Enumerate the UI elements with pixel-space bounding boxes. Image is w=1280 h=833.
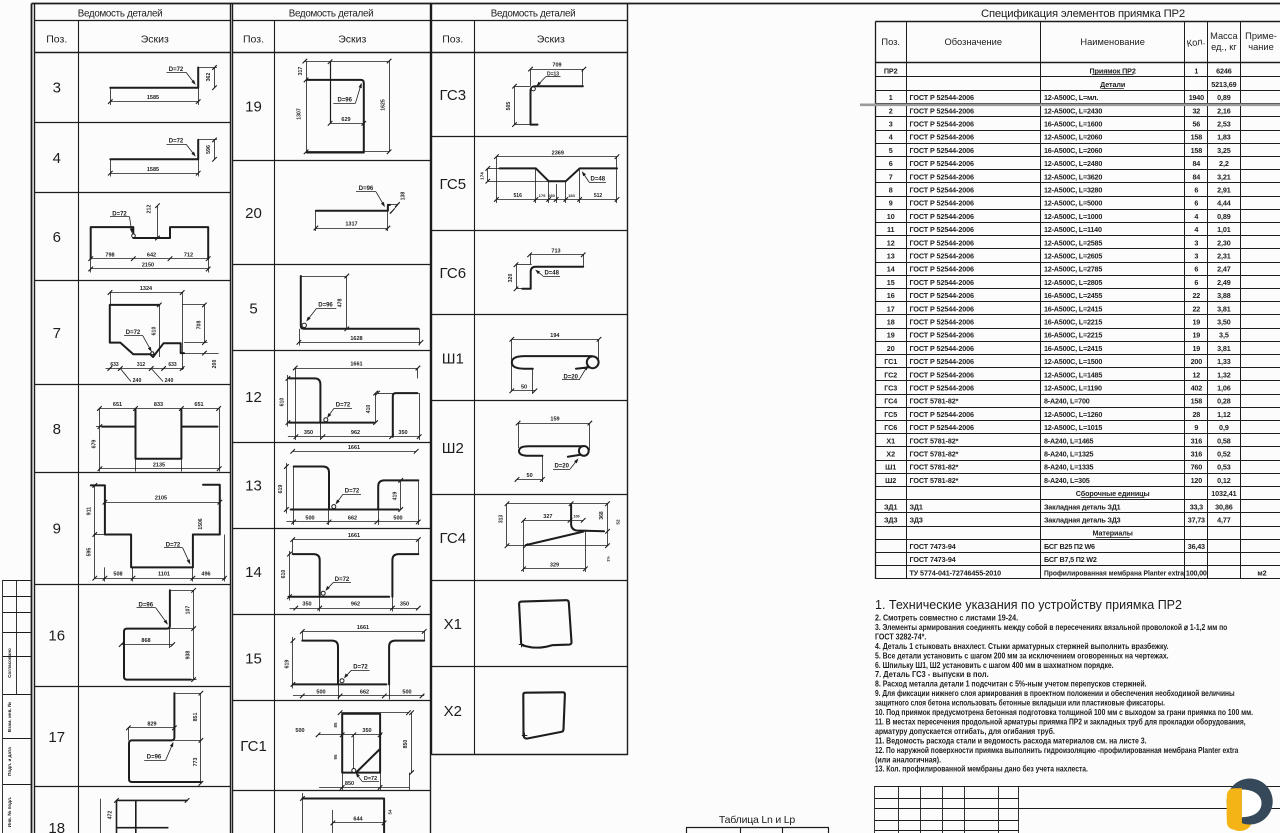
svg-text:19: 19 [1192,318,1200,327]
svg-text:512: 512 [594,193,603,199]
sketch detail 14: U bar [281,533,420,611]
svg-text:95: 95 [333,754,338,759]
svg-text:194: 194 [550,333,560,339]
svg-text:500: 500 [305,516,314,522]
svg-text:320: 320 [508,274,514,283]
svg-text:0,58: 0,58 [1217,436,1231,445]
svg-text:Закладная деталь ЗД3: Закладная деталь ЗД3 [1044,516,1121,525]
svg-text:0,52: 0,52 [1217,450,1231,459]
svg-text:1940: 1940 [1189,93,1204,102]
svg-text:107: 107 [186,606,192,615]
svg-text:ЗД1: ЗД1 [910,502,923,511]
svg-text:ЗД3: ЗД3 [884,516,897,525]
svg-text:708: 708 [196,321,202,330]
sketch detail 16: Z bar with rounded corner [119,588,197,682]
svg-text:2135: 2135 [153,462,165,468]
svg-text:080: 080 [548,193,555,198]
svg-text:84: 84 [1192,159,1200,168]
svg-text:798: 798 [105,252,114,258]
svg-text:851: 851 [193,713,199,722]
details table 3 position labels [439,87,466,720]
svg-text:3,25: 3,25 [1217,146,1231,155]
spec table headers [881,31,1276,52]
svg-text:8-А240, L=1335: 8-А240, L=1335 [1044,463,1094,472]
svg-text:2105: 2105 [155,496,167,502]
svg-text:Ш1: Ш1 [442,351,464,368]
details table 1 header Поз/Эскиз [46,34,169,46]
left margin label Подп. и дата [7,747,12,776]
svg-text:Эскиз: Эскиз [141,34,169,46]
svg-text:1101: 1101 [158,572,170,578]
svg-text:Детали: Детали [1100,80,1125,89]
spec row ГС1 [884,357,1231,366]
svg-text:350: 350 [362,728,371,734]
svg-text:3,81: 3,81 [1217,344,1231,353]
svg-text:179: 179 [539,193,546,198]
svg-text:ГОСТ Р 52544-2006: ГОСТ Р 52544-2006 [910,199,975,208]
svg-text:1324: 1324 [140,286,153,292]
svg-text:12-А500С, L=1260: 12-А500С, L=1260 [1044,410,1102,419]
svg-text:240: 240 [165,378,174,384]
svg-text:Масса: Масса [1210,31,1238,41]
sketch detail ГС6: angle bar with foot [508,248,586,291]
svg-text:ГОСТ Р 52544-2006: ГОСТ Р 52544-2006 [910,146,975,155]
svg-text:Поз.: Поз. [442,34,463,46]
svg-text:12-А500С, L=1000: 12-А500С, L=1000 [1044,212,1102,221]
svg-text:410: 410 [366,405,372,414]
svg-text:350: 350 [400,602,409,608]
svg-text:596: 596 [206,145,212,154]
spec row 20 [887,344,1231,353]
svg-text:1,12: 1,12 [1217,410,1231,419]
svg-text:644: 644 [353,817,363,823]
spec row ГС6 [884,423,1229,432]
svg-text:7: 7 [889,172,893,181]
svg-text:0,89: 0,89 [1217,93,1231,102]
svg-text:ГОСТ Р 52544-2006: ГОСТ Р 52544-2006 [910,212,975,221]
svg-text:ГОСТ Р 52544-2006: ГОСТ Р 52544-2006 [910,344,975,353]
svg-text:Приме-: Приме- [1245,31,1277,41]
spec row 11 [887,225,1231,234]
svg-text:1032,41: 1032,41 [1211,489,1236,498]
svg-text:ГС1: ГС1 [240,738,267,755]
spec row Ш1 [885,463,1231,472]
svg-text:12-А500С, L=2480: 12-А500С, L=2480 [1044,159,1102,168]
details table 2 header Поз/Эскиз [243,34,366,46]
svg-text:1628: 1628 [350,336,362,342]
svg-text:2,49: 2,49 [1217,278,1231,287]
svg-text:850: 850 [345,781,354,787]
svg-text:ТУ 5774-041-72746455-2010: ТУ 5774-041-72746455-2010 [910,568,1002,577]
svg-text:ГС3: ГС3 [884,384,897,393]
svg-text:619: 619 [278,485,284,494]
details table 3 border [432,4,628,756]
svg-text:15: 15 [245,651,262,668]
sketch detail 19: hooked vertical bar [297,59,392,154]
svg-text:2,30: 2,30 [1217,238,1231,247]
svg-text:19: 19 [1192,344,1200,353]
svg-text:ГОСТ Р 52544-2006: ГОСТ Р 52544-2006 [910,331,975,340]
svg-text:33,3: 33,3 [1190,502,1203,511]
svg-text:3. Элементы армирования соеди: 3. Элементы армирования соединять между … [875,622,1227,632]
svg-text:БСГ В7,5 П2 W2: БСГ В7,5 П2 W2 [1044,555,1097,564]
svg-text:ГС2: ГС2 [884,370,897,379]
logo: yellow base shape [1227,787,1253,831]
svg-text:212: 212 [147,205,153,214]
svg-text:ГС6: ГС6 [884,423,897,432]
svg-text:50: 50 [527,473,533,479]
svg-text:ЗД1: ЗД1 [884,502,897,511]
spec row Сборочные единицы [1076,489,1237,498]
svg-text:4: 4 [889,133,893,142]
svg-text:500: 500 [402,690,411,696]
svg-text:Поз.: Поз. [46,34,67,46]
svg-text:36,43: 36,43 [1188,542,1205,551]
svg-text:12-А500С, L=2605: 12-А500С, L=2605 [1044,252,1102,261]
spec row Детали [1100,80,1237,89]
details table 1 title Ведомость деталей [78,9,163,20]
sheet frame top border [32,3,1280,5]
spec table grid [875,22,1280,579]
svg-text:20: 20 [245,205,262,222]
spec row 8 [889,186,1231,195]
sketch detail 8: wide hat bar [92,402,222,472]
svg-text:662: 662 [348,516,357,522]
spec row 7 [889,172,1231,181]
svg-text:316: 316 [1191,436,1203,445]
svg-text:1%: 1% [605,556,610,562]
spec row ЗД1 [884,502,1233,511]
spec table title [981,8,1185,20]
svg-text:0,89: 0,89 [1217,212,1231,221]
svg-text:Сборочные единицы: Сборочные единицы [1076,489,1150,498]
spec row ЗД3 [884,516,1231,525]
svg-text:84: 84 [1192,172,1200,181]
svg-text:679: 679 [92,440,98,449]
svg-text:19: 19 [1192,331,1200,340]
svg-text:1661: 1661 [348,445,360,451]
svg-text:D=96: D=96 [337,98,352,104]
svg-text:500: 500 [295,728,304,734]
svg-text:8: 8 [889,186,893,195]
svg-text:2,53: 2,53 [1217,120,1231,129]
svg-text:ГС6: ГС6 [439,265,466,282]
svg-text:D=96: D=96 [318,303,333,309]
svg-text:ГС5: ГС5 [884,410,897,419]
svg-text:2,16: 2,16 [1217,106,1231,115]
svg-text:12-А500С, L=1485: 12-А500С, L=1485 [1044,370,1102,379]
svg-text:610: 610 [151,327,157,336]
svg-text:662: 662 [360,690,369,696]
bottom table title Таблица Ln и Lp [719,814,796,826]
svg-text:17: 17 [887,304,895,313]
spec row 14 [887,265,1231,274]
svg-text:2,47: 2,47 [1217,265,1231,274]
svg-text:ГОСТ Р 52544-2006: ГОСТ Р 52544-2006 [910,225,975,234]
svg-text:22: 22 [1192,291,1200,300]
svg-text:11: 11 [887,225,895,234]
svg-text:1,33: 1,33 [1217,357,1231,366]
svg-text:ГОСТ 5781-82*: ГОСТ 5781-82* [910,397,959,406]
sketch detail ГС1: square with diagonal [295,710,413,790]
svg-text:28: 28 [1192,410,1200,419]
svg-text:12-А500С, L=2430: 12-А500С, L=2430 [1044,106,1102,115]
svg-text:10: 10 [887,212,895,221]
sketch detail 17: Z bar mirrored [126,691,203,786]
svg-text:350: 350 [302,602,311,608]
svg-text:54: 54 [388,809,393,814]
spec row 6 [889,159,1229,168]
svg-text:БСГ В25 П2 W6: БСГ В25 П2 W6 [1044,542,1095,551]
svg-text:D=72: D=72 [345,489,360,495]
svg-text:3,88: 3,88 [1217,291,1231,300]
spec row Х2 [886,450,1230,459]
svg-text:Х1: Х1 [886,436,895,445]
svg-text:610: 610 [281,570,287,579]
svg-text:12-А500С, L=1015: 12-А500С, L=1015 [1044,423,1102,432]
svg-text:1,83: 1,83 [1217,133,1231,142]
svg-text:12-А500С, L=2805: 12-А500С, L=2805 [1044,278,1102,287]
spec row 19 [887,331,1229,340]
svg-text:17: 17 [48,729,65,746]
svg-text:496: 496 [201,572,210,578]
svg-text:619: 619 [285,660,291,669]
svg-text:16: 16 [48,628,65,645]
svg-text:ПР2: ПР2 [884,66,898,75]
sketch detail Х1: rounded quad ring [519,600,572,647]
svg-text:Ведомость деталей: Ведомость деталей [289,9,374,20]
svg-text:Спецификация элементов приямка: Спецификация элементов приямка ПР2 [981,8,1185,20]
svg-text:чание: чание [1248,42,1274,52]
svg-text:8-А240, L=1465: 8-А240, L=1465 [1044,436,1094,445]
svg-text:D=20: D=20 [554,464,569,470]
svg-text:760: 760 [1191,463,1203,472]
svg-text:ГС5: ГС5 [439,176,466,193]
sketch detail 15: U bar wide [285,625,427,700]
svg-text:Х1: Х1 [444,616,462,633]
details table 2 position labels [240,99,267,756]
svg-text:6: 6 [1194,265,1198,274]
svg-text:ГОСТ Р 52544-2006: ГОСТ Р 52544-2006 [910,278,975,287]
svg-text:3: 3 [1194,252,1198,261]
spec row 15 [887,278,1231,287]
svg-text:30,86: 30,86 [1215,502,1233,511]
svg-text:12-А500С, L=3620: 12-А500С, L=3620 [1044,172,1102,181]
svg-text:709: 709 [552,63,561,69]
spec row Профилированная мембрана Planter extra [910,568,1267,577]
svg-text:32: 32 [1192,106,1200,115]
sketch detail 4: bar with hook [108,138,217,177]
svg-text:ГОСТ Р 52544-2006: ГОСТ Р 52544-2006 [910,106,975,115]
svg-text:629: 629 [341,117,350,123]
sketch detail 3: bar with hook [108,65,217,105]
spec row 13 [887,252,1231,261]
svg-text:2369: 2369 [552,150,564,156]
svg-text:651: 651 [113,402,122,408]
spec row 2 [889,106,1231,115]
svg-text:1317: 1317 [345,222,357,228]
logo: white core [1242,790,1262,818]
sketch detail 13: U bar variant [278,445,421,525]
svg-text:16-А500С, L=2060: 16-А500С, L=2060 [1044,146,1102,155]
svg-text:Х2: Х2 [886,450,895,459]
svg-text:200: 200 [212,360,218,369]
svg-text:6: 6 [53,229,61,246]
svg-text:0,9: 0,9 [1219,423,1229,432]
svg-text:ГОСТ 7473-94: ГОСТ 7473-94 [910,555,956,564]
svg-text:8: 8 [53,421,61,438]
svg-text:329: 329 [550,562,559,568]
svg-text:D=72: D=72 [353,665,368,671]
svg-text:ГОСТ Р 52544-2006: ГОСТ Р 52544-2006 [910,304,975,313]
svg-text:20: 20 [887,344,895,353]
svg-text:Таблица Ln и Lp: Таблица Ln и Lp [719,814,796,826]
spec row 4 [889,133,1231,142]
svg-text:ГОСТ Р 52544-2006: ГОСТ Р 52544-2006 [910,291,975,300]
svg-text:12-А500С, L=мл.: 12-А500С, L=мл. [1044,93,1098,102]
svg-text:1,32: 1,32 [1217,370,1231,379]
svg-text:3: 3 [889,120,893,129]
svg-text:350: 350 [398,430,407,436]
svg-text:12-А500С, L=2785: 12-А500С, L=2785 [1044,265,1102,274]
svg-text:158: 158 [1191,133,1203,142]
title block grid [875,786,1280,833]
svg-text:1: 1 [1194,66,1198,75]
svg-text:D=96: D=96 [147,755,162,761]
sketch detail Ш1: long loop pin [510,333,602,394]
svg-text:850: 850 [403,740,409,749]
svg-text:ГОСТ Р 52544-2006: ГОСТ Р 52544-2006 [910,384,975,393]
svg-text:8-А240, L=700: 8-А240, L=700 [1044,397,1090,406]
svg-text:7: 7 [53,325,61,342]
svg-text:472: 472 [108,811,114,820]
svg-text:9: 9 [889,199,893,208]
svg-text:12-А500С, L=1140: 12-А500С, L=1140 [1044,225,1102,234]
svg-text:317: 317 [298,67,304,76]
spec row БСГ В7,5 П2 W2 [910,555,1097,564]
svg-text:2,91: 2,91 [1217,186,1231,195]
svg-text:ГОСТ 5781-82*: ГОСТ 5781-82* [910,436,959,445]
svg-text:868: 868 [141,638,150,644]
svg-text:Ш2: Ш2 [442,440,464,457]
svg-text:9: 9 [1194,423,1198,432]
svg-text:D=72: D=72 [169,67,184,73]
svg-text:Подп. и дата: Подп. и дата [7,747,12,776]
svg-text:13: 13 [245,478,262,495]
svg-text:362: 362 [206,73,212,82]
svg-text:19: 19 [245,99,262,116]
svg-text:16-А500С, L=2215: 16-А500С, L=2215 [1044,318,1102,327]
svg-text:D=72: D=72 [336,403,351,409]
svg-text:Эскиз: Эскиз [338,34,366,46]
svg-text:ГОСТ Р 52544-2006: ГОСТ Р 52544-2006 [910,172,975,181]
svg-text:100,00: 100,00 [1186,568,1207,577]
svg-text:2,2: 2,2 [1219,159,1229,168]
svg-text:633: 633 [168,362,177,368]
svg-text:D=72: D=72 [364,776,377,782]
svg-text:1585: 1585 [147,95,159,101]
svg-text:610: 610 [280,398,286,407]
svg-text:316: 316 [1191,450,1203,459]
svg-text:3,81: 3,81 [1217,304,1231,313]
sketch detail 12: stepped bar [280,362,422,440]
svg-text:911: 911 [87,507,93,515]
svg-text:500: 500 [393,516,402,522]
svg-text:12-А500С, L=1190: 12-А500С, L=1190 [1044,384,1102,393]
svg-text:Обозначение: Обозначение [945,37,1003,47]
svg-text:6: 6 [1194,278,1198,287]
spec row 17 [887,304,1231,313]
details table 3 title Ведомость деталей [491,9,576,20]
logo: navy ring disc [1227,779,1273,825]
svg-text:240: 240 [133,378,142,384]
svg-text:2: 2 [889,106,893,115]
spec row 10 [887,212,1231,221]
svg-text:0,53: 0,53 [1217,463,1231,472]
svg-text:773: 773 [193,758,199,767]
svg-text:ГОСТ Р 52544-2006: ГОСТ Р 52544-2006 [910,120,975,129]
sketch detail ГС4: bent flat bar [498,501,620,572]
sketch detail 20: straight bar with small hook [314,186,407,231]
svg-text:829: 829 [147,721,156,727]
svg-text:Взам. инв. №: Взам. инв. № [7,702,12,732]
svg-text:642: 642 [147,252,156,258]
svg-text:158: 158 [1191,397,1203,406]
svg-text:419: 419 [392,492,398,501]
sketch detail 9: U bar with posts [87,483,227,581]
spec row ГС3 [884,384,1231,393]
left margin label Взам. инв. № [7,702,12,732]
svg-text:м2: м2 [1257,568,1266,577]
svg-text:651: 651 [194,402,203,408]
svg-text:ГОСТ 5781-82*: ГОСТ 5781-82* [910,476,959,485]
spec row 9 [889,199,1231,208]
svg-text:8-А240, L=305: 8-А240, L=305 [1044,476,1090,485]
sketch detail ГС3: angle bar [506,63,586,127]
svg-text:14: 14 [887,265,895,274]
svg-text:962: 962 [351,430,360,436]
details table 1 position labels [48,80,65,833]
svg-text:4: 4 [1194,225,1198,234]
left margin label Инв. № подл. [7,797,12,827]
svg-text:14: 14 [245,564,262,581]
left margin stamp boxes [3,580,32,833]
svg-text:ед., кг: ед., кг [1211,42,1237,52]
svg-text:595: 595 [87,548,93,557]
svg-text:8-А240, L=1325: 8-А240, L=1325 [1044,450,1094,459]
svg-text:Инв. № подл.: Инв. № подл. [7,797,12,827]
svg-text:ГОСТ Р 52544-2006: ГОСТ Р 52544-2006 [910,410,975,419]
svg-text:962: 962 [351,602,360,608]
svg-text:ГОСТ 5781-82*: ГОСТ 5781-82* [910,463,959,472]
sketch detail Ш2: short loop pin [515,417,592,482]
svg-text:19: 19 [887,331,895,340]
svg-text:ГС4: ГС4 [884,397,897,406]
svg-text:1,01: 1,01 [1217,225,1231,234]
svg-text:158: 158 [1191,146,1203,155]
svg-text:5213,69: 5213,69 [1211,80,1236,89]
spec row БСГ В25 П2 W6 [910,542,1205,551]
svg-text:ГОСТ Р 52544-2006: ГОСТ Р 52544-2006 [910,93,975,102]
sketch detail Х2: rounded quad ring [522,692,565,738]
svg-text:ГОСТ Р 52544-2006: ГОСТ Р 52544-2006 [910,238,975,247]
svg-text:2,31: 2,31 [1217,252,1231,261]
svg-text:22: 22 [1192,304,1200,313]
svg-text:Ведомость деталей: Ведомость деталей [78,9,163,20]
svg-text:16-А500С, L=1600: 16-А500С, L=1600 [1044,120,1102,129]
svg-text:12-А500С, L=2585: 12-А500С, L=2585 [1044,238,1102,247]
svg-text:505: 505 [506,102,512,111]
